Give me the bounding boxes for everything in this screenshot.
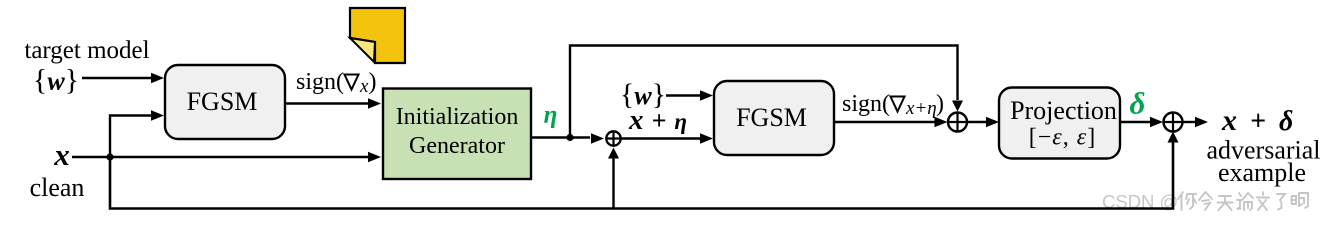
svg-text:sign(: sign( (842, 91, 890, 117)
svg-text:x: x (53, 137, 70, 172)
wire Initialization Generator to adder1 (531, 133, 604, 143)
wire x down to bottom rail (110, 140, 1173, 209)
node x junction (106, 153, 113, 160)
svg-text:): ) (936, 91, 944, 117)
tian (1218, 196, 1233, 210)
svg-text:FGSM: FGSM (736, 103, 807, 132)
svg-text:[−ε, ε]: [−ε, ε] (1029, 125, 1096, 151)
adder3 circle-plus (1164, 113, 1183, 132)
svg-text:FGSM: FGSM (187, 87, 258, 116)
svg-text:Projection: Projection (1010, 96, 1117, 125)
label sign(nabla_x+eta) (842, 91, 944, 119)
le (1277, 194, 1285, 210)
wire top rail from eta junction to adder2 (570, 46, 963, 138)
svg-text:η: η (544, 102, 558, 129)
sticky note icon (350, 8, 405, 63)
wire bottom rail up into adder1 (608, 148, 619, 209)
wen (1257, 192, 1269, 210)
wire adder3 to x+delta (1183, 117, 1209, 127)
svg-text:{w}: {w} (33, 64, 79, 97)
wire {w} to FGSM2 (666, 90, 713, 100)
wire x up elbow to FGSM1 (110, 110, 164, 157)
svg-text:): ) (369, 69, 377, 95)
svg-text:example: example (1218, 158, 1306, 187)
ni (1178, 192, 1196, 210)
watermark chinese characters (1178, 192, 1308, 210)
box FGSM2 (714, 81, 834, 155)
wire Projection to adder3 (1120, 117, 1163, 127)
node eta junction (566, 134, 573, 141)
lun (1237, 193, 1253, 210)
arrow bottom rail up into adder3 (1168, 132, 1179, 143)
box FGSM1 (165, 65, 285, 139)
svg-text:Generator: Generator (409, 133, 505, 159)
svg-text:x+δ: x+δ (1221, 104, 1293, 137)
wire FGSM1 to Initialization Generator (285, 98, 381, 108)
svg-text:sign(: sign( (296, 69, 344, 95)
label sign(nabla_x) (296, 69, 377, 97)
wire adder1 to FGSM2 (621, 133, 713, 143)
svg-text:x+η: x+η (905, 98, 937, 119)
ma (1292, 193, 1309, 208)
adder1 circle-plus (606, 131, 622, 147)
svg-text:target model: target model (24, 37, 149, 64)
wire FGSM2 to adder2 (834, 117, 948, 127)
box Initialization Generator (383, 89, 531, 180)
wire x to Initialization Generator (72, 152, 381, 162)
wire {w} to FGSM1 (82, 73, 164, 83)
svg-text:{w}: {w} (620, 78, 666, 111)
box Projection (999, 88, 1120, 159)
adder2 circle-plus (948, 113, 967, 132)
svg-text:clean: clean (30, 173, 85, 202)
svg-text:Initialization: Initialization (396, 104, 519, 130)
jin (1199, 192, 1212, 210)
wire adder2 to Projection (967, 117, 999, 127)
svg-text:x: x (359, 76, 369, 97)
svg-text:δ: δ (1130, 86, 1146, 121)
